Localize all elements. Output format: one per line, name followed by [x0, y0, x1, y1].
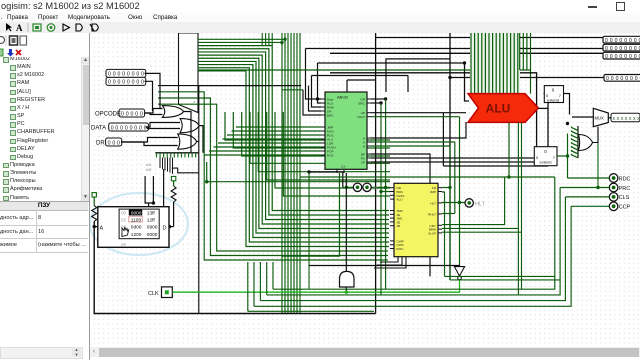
svg-text:ALU: ALU [397, 198, 403, 202]
vertical bus [449, 33, 451, 280]
svg-text:0: 0 [605, 46, 608, 52]
U1.DR wire [371, 98, 386, 100]
clock wire stub [459, 280, 461, 292]
ALU flag vertical 2 [517, 122, 519, 295]
U2.JMP feedback [442, 192, 445, 276]
svg-text:0: 0 [630, 76, 633, 82]
bus fan wire 6 [198, 55, 389, 224]
branch vertical [206, 162, 208, 182]
vertical to RDC wire [567, 134, 569, 179]
svg-text:0: 0 [634, 38, 637, 44]
frame left vertical [442, 113, 444, 166]
wire to U1 pin ALU [223, 138, 322, 140]
ALU input bundle 6 [488, 33, 490, 94]
svg-text:0: 0 [611, 76, 614, 82]
input pin row OPCODE [119, 109, 145, 117]
long green bus [198, 70, 531, 94]
bus fan wire 7 [198, 58, 389, 228]
svg-text:0: 0 [610, 54, 613, 60]
output pin row O4 [604, 75, 640, 82]
svg-text:0: 0 [112, 140, 115, 146]
wire junction [345, 291, 348, 294]
svg-text:0: 0 [132, 72, 135, 78]
wire from U1 bottom [309, 172, 343, 187]
feed U1.ALU [318, 63, 322, 103]
svg-text:HLT: HLT [430, 201, 436, 205]
svg-text:CK: CK [373, 186, 379, 191]
svg-text:H: H [363, 145, 365, 149]
wire junction [448, 76, 451, 79]
svg-text:BRC: BRC [327, 114, 334, 118]
wire to HLT lamp [442, 202, 465, 204]
ROM M1 [98, 207, 169, 248]
bus to OUT row4 [450, 77, 604, 79]
wire ROM D [169, 226, 174, 228]
svg-text:OPCODE: OPCODE [95, 112, 121, 118]
multiplexer MUX1 [593, 108, 608, 126]
wire junction [384, 97, 387, 100]
clock CLK1 [162, 287, 173, 298]
svg-text:0: 0 [117, 80, 120, 86]
svg-text:0: 0 [605, 54, 608, 60]
svg-text:0: 0 [615, 38, 618, 44]
bus to ALU in A [465, 63, 470, 101]
bus elbow y59 [386, 59, 450, 92]
ALU flag vertical [508, 122, 510, 177]
bus to OUT row1 [376, 37, 604, 39]
svg-text:0000: 0000 [131, 210, 142, 216]
bundle B vertical 1 [281, 33, 283, 314]
U1 bottom wire 2 [336, 202, 338, 328]
bus y63 [318, 62, 465, 64]
svg-text:0: 0 [615, 54, 618, 60]
output lamp CLS [609, 193, 618, 202]
wire junction [448, 186, 451, 189]
NOT gate G5 (inverter, pointing down) [454, 267, 464, 276]
svg-text:0: 0 [616, 76, 619, 82]
opcode route 2 [158, 98, 388, 256]
input pin row DATA [109, 123, 149, 131]
staircase wire a1 [225, 112, 390, 140]
feed U1.RAM [312, 76, 322, 108]
wire OPCODE a [145, 109, 163, 114]
loop bottom e [248, 310, 374, 312]
U2 bottom wire 3 [374, 257, 406, 268]
opcode route 4 [158, 86, 199, 314]
extender U4 [544, 86, 563, 103]
output pin row OUT (xxxxxxxx) [611, 113, 640, 122]
svg-text:0: 0 [629, 38, 632, 44]
svg-text:0: 0 [117, 72, 120, 78]
bus fan wire 3 [198, 46, 389, 211]
wire junction [316, 97, 319, 100]
G2 output [199, 126, 203, 153]
svg-text:0: 0 [113, 80, 116, 86]
OR gate G3 [178, 134, 197, 149]
svg-text:0: 0 [113, 72, 116, 78]
loop left vertical b [266, 262, 268, 295]
feedback loop 1 [445, 275, 555, 277]
ROM contents table [119, 209, 159, 239]
wire to ROM 2 [152, 176, 154, 203]
frame bottom [443, 165, 548, 167]
extend2 out [557, 155, 568, 157]
wire junction [93, 225, 96, 228]
svg-text:HLT: HLT [475, 201, 486, 207]
bundle D vertical 3 [526, 33, 528, 70]
wire junction [596, 186, 599, 189]
svg-text:ROC: ROC [397, 247, 405, 251]
ALU input bundle 10 [502, 33, 504, 94]
svg-text:0: 0 [132, 80, 135, 86]
splitter S1 (main bus fan-out) [179, 33, 199, 113]
svg-text:0: 0 [120, 125, 123, 131]
svg-text:0: 0 [115, 125, 118, 131]
wire junction [168, 225, 171, 228]
CX wire to AND input [345, 173, 347, 271]
staircase wire a7 [275, 112, 390, 188]
svg-text:DR: DR [96, 141, 105, 147]
G4 out [593, 127, 598, 143]
svg-text:0: 0 [139, 125, 142, 131]
OR gate G4 [579, 135, 593, 151]
svg-text:1100: 1100 [131, 218, 142, 224]
splitter S2 comb [155, 152, 199, 154]
svg-text:CX: CX [341, 165, 345, 169]
bus to OUT row2 [306, 48, 605, 50]
wire junction [507, 175, 510, 178]
staircase wire a5 [258, 112, 390, 172]
stub U1 top [346, 80, 348, 92]
bus fan wire 4 [198, 49, 389, 215]
LED indicator D2 [363, 183, 371, 191]
wire OPCODE b [145, 113, 163, 115]
svg-text:ALUF: ALUF [428, 231, 436, 235]
LED indicator D1 [353, 183, 361, 191]
wire to PRC [560, 187, 609, 189]
svg-text:0: 0 [620, 76, 623, 82]
U1 bottom wire left [282, 173, 340, 256]
U1.CP bus [371, 161, 548, 163]
output pin row O3 [603, 52, 640, 59]
ALU input bundle 2 [474, 33, 476, 94]
svg-text:0: 0 [135, 111, 138, 117]
bottom bus loop [94, 222, 375, 314]
staircase wire a8 [283, 112, 390, 196]
output pin row O2 [603, 44, 640, 51]
bundle B vertical 6 [296, 33, 298, 314]
U2 bottom wire 2 [377, 257, 402, 265]
U1.BRC wire [371, 102, 381, 104]
pull stub [93, 197, 95, 206]
svg-text:0: 0 [624, 54, 627, 60]
output pin row O1 [603, 36, 640, 43]
stub wire [347, 79, 376, 81]
bus fan wire 10 [198, 68, 389, 242]
ROM highlight cells [129, 210, 142, 216]
MUX select wire [597, 127, 599, 188]
wire to U1 pin LOR [218, 142, 321, 144]
svg-text:0900: 0900 [147, 225, 158, 231]
svg-text:CCP: CCP [619, 205, 631, 211]
bundle D vertical 2 [522, 33, 524, 70]
ALU out to extend1 in [544, 94, 549, 109]
wire to U1 pin PUSH [214, 146, 322, 148]
ALU input bundle 12 [510, 33, 512, 94]
U2.FR wire [442, 187, 450, 189]
svg-text:0: 0 [619, 46, 622, 52]
svg-text:CLS: CLS [619, 195, 630, 201]
vertical FR feedback [449, 146, 451, 280]
input pin row IN2 [106, 77, 146, 85]
svg-text:0: 0 [122, 80, 125, 86]
ALU input bundle 11 [506, 33, 508, 94]
wire junction [463, 61, 466, 64]
svg-text:0: 0 [108, 72, 111, 78]
extend1 out [563, 94, 569, 115]
wire to U1 pin JMP [236, 126, 321, 128]
splitter S3 dense fan [159, 158, 161, 169]
staircase wire a2 [233, 112, 390, 148]
svg-text:a03: a03 [146, 163, 152, 167]
svg-text:JMP: JMP [430, 190, 436, 194]
pin P1 (pull) [92, 193, 96, 197]
output lamp PRC [609, 183, 618, 192]
feed U1.BRC [303, 90, 321, 115]
U2.ALUF wire [442, 231, 522, 233]
wire to ROM A [94, 226, 98, 228]
wire junction [566, 154, 569, 157]
ALU input bundle 9 [499, 33, 501, 94]
svg-text:1200: 1200 [131, 232, 142, 238]
wire to U1 pin MOV [232, 130, 322, 132]
AND gate G6 (pointing down) [340, 271, 355, 287]
svg-text:0: 0 [629, 54, 632, 60]
ALU input bundle 8 [495, 33, 497, 94]
svg-text:0: 0 [136, 72, 139, 78]
output HLT lamp [465, 199, 473, 207]
U2.BRW wire [442, 227, 518, 229]
U2.RHLT wire [442, 213, 455, 215]
svg-text:0: 0 [141, 72, 144, 78]
svg-text:ALU: ALU [486, 102, 511, 116]
svg-text:0: 0 [629, 46, 632, 52]
wire junction [280, 41, 283, 44]
svg-text:0: 0 [625, 76, 628, 82]
wire to RDC [568, 177, 610, 179]
OR gate G2 [180, 119, 199, 133]
wire to U1 pin POP [209, 150, 321, 152]
svg-text:0: 0 [624, 46, 627, 52]
selection halo around ROM [90, 193, 188, 255]
loop path c [260, 197, 565, 301]
svg-text:0: 0 [108, 80, 111, 86]
extender U5 [534, 147, 557, 166]
opcode route 1 [158, 104, 388, 251]
feed U1.Daw [306, 49, 322, 100]
bus fan wire 11 [198, 71, 389, 247]
loop left vertical c [259, 262, 261, 301]
svg-text:0: 0 [605, 38, 608, 44]
svg-text:0d00: 0d00 [131, 225, 142, 231]
bus fan wire 2 [198, 41, 282, 43]
svg-text:a03: a03 [146, 168, 152, 172]
svg-text:0: 0 [635, 76, 638, 82]
svg-text:0: 0 [634, 54, 637, 60]
output lamp CCP [609, 202, 618, 211]
loop left vertical e [247, 262, 249, 311]
ALU out [538, 107, 548, 109]
U1.A bus [371, 122, 466, 138]
G1 output [184, 112, 191, 153]
top stub vertical [271, 33, 273, 46]
frame joint [547, 162, 549, 166]
splitter S4 [577, 126, 579, 158]
long branch wire [207, 181, 390, 183]
wire to CCP [571, 205, 609, 207]
svg-text:12ff: 12ff [147, 218, 156, 224]
bundle B vertical 4 [290, 33, 292, 314]
wire junction [345, 186, 348, 189]
opcode route 3 [158, 92, 388, 260]
input pin row DR [106, 138, 122, 146]
svg-text:extend: extend [547, 98, 559, 103]
bundle tint [470, 33, 520, 94]
svg-text:0: 0 [126, 111, 129, 117]
svg-text:0: 0 [615, 46, 618, 52]
U1.X wire [371, 141, 455, 143]
bundle B vertical 5 [293, 33, 295, 314]
svg-text:PRC: PRC [619, 186, 631, 192]
bus to OUT row3 [330, 52, 604, 54]
bus fan wire 8 [198, 61, 389, 233]
svg-text:0: 0 [121, 111, 124, 117]
svg-text:00: 00 [121, 210, 127, 215]
svg-text:JB: JB [397, 224, 401, 228]
svg-text:HALT: HALT [357, 115, 365, 119]
wire to ROM [145, 176, 153, 203]
pull resistor R1 [92, 206, 97, 222]
HALT vertical to NOT gate [459, 117, 461, 267]
staircase wire a4 [250, 112, 390, 163]
U1.HALT wire [371, 116, 460, 118]
ALU input bundle 3 [477, 33, 479, 94]
svg-text:0: 0 [619, 54, 622, 60]
wire IN2 [145, 81, 153, 111]
wire junction [566, 122, 569, 125]
svg-text:0: 0 [610, 46, 613, 52]
wire to CLS [565, 196, 609, 198]
loop path a [273, 177, 555, 289]
output lamp RDC [609, 174, 618, 183]
svg-text:0: 0 [125, 125, 128, 131]
pin P2 (pull) [171, 176, 175, 180]
wire junction [307, 170, 310, 173]
green y89 wire [282, 89, 303, 91]
U1 bottom wire 1 [332, 202, 334, 322]
ALU input bundle 7 [492, 33, 494, 94]
ALU out frame vertical [547, 108, 549, 162]
svg-text:A: A [16, 23, 23, 33]
ALU flag vertical 3 [521, 122, 523, 289]
stub [407, 76, 409, 93]
U1.PC bus to extend2 [371, 157, 534, 159]
G3 output [197, 141, 199, 143]
svg-text:ABCB: ABCB [337, 95, 348, 100]
OR gate G1 [162, 106, 183, 118]
pull stub 2 [173, 181, 175, 186]
svg-text:0: 0 [127, 72, 130, 78]
svg-text:D: D [163, 226, 167, 232]
svg-text:0: 0 [130, 111, 133, 117]
svg-text:ROC: ROC [327, 154, 335, 158]
bus fan wire 5 [198, 52, 389, 220]
vertical to RHLT [454, 142, 456, 214]
svg-text:CLK: CLK [148, 291, 159, 297]
wire to U2.BRC [381, 191, 390, 193]
wire DATA b [146, 127, 181, 129]
svg-text:0: 0 [136, 80, 139, 86]
U2.CRY wire [442, 177, 505, 225]
bus fan wire 1 [198, 38, 285, 40]
ALU input bundle 5 [484, 33, 486, 94]
wire junction [205, 180, 208, 183]
wire junction [379, 101, 382, 104]
pull resistor R2 [171, 186, 176, 202]
feed U1.DR [309, 86, 322, 111]
U1.AP bus [371, 112, 466, 114]
svg-text:0: 0 [134, 125, 137, 131]
ALU U3 (red) [468, 94, 538, 123]
bundle B vertical 7 [299, 33, 301, 314]
subcircuit U2 (flag/jump unit, yellow) [394, 183, 438, 256]
svg-text:x: x [194, 100, 196, 104]
loop path b [267, 188, 560, 295]
ALU input bundle 13 [513, 33, 515, 94]
wire to U1 pin ROC [227, 134, 321, 136]
bundle D vertical 1 [519, 33, 521, 70]
svg-text:02: 02 [121, 218, 127, 223]
buffer U6 [564, 148, 573, 167]
svg-text:DATA: DATA [91, 126, 106, 132]
svg-text:A: A [100, 226, 104, 232]
input pin row IN1 [106, 69, 146, 77]
wire junction [152, 201, 155, 204]
svg-text:0: 0 [122, 72, 125, 78]
ALU input bundle 1 [470, 33, 472, 94]
svg-text:0: 0 [117, 140, 120, 146]
ALU input bundle 4 [481, 33, 483, 94]
bus to extend2 [330, 73, 537, 147]
wire DR a [121, 138, 178, 143]
svg-text:13ff: 13ff [147, 210, 156, 216]
wire junction [283, 38, 286, 41]
wire junction [458, 201, 461, 204]
ALU input bundle 14 [517, 33, 519, 94]
svg-text:extend: extend [539, 160, 551, 165]
svg-text:0: 0 [619, 38, 622, 44]
loop path d [254, 206, 571, 306]
U2 bottom wire 1 [380, 257, 398, 262]
svg-text:BRC: BRC [358, 102, 365, 106]
svg-text:MUX: MUX [595, 116, 605, 121]
wire to MUX [572, 116, 593, 118]
svg-text:sel: sel [121, 242, 126, 247]
MUX out [608, 117, 611, 119]
loop left vertical d [253, 262, 255, 306]
wire to U1 pin ROC [205, 154, 322, 156]
mouse cursor (hand) [122, 228, 129, 237]
